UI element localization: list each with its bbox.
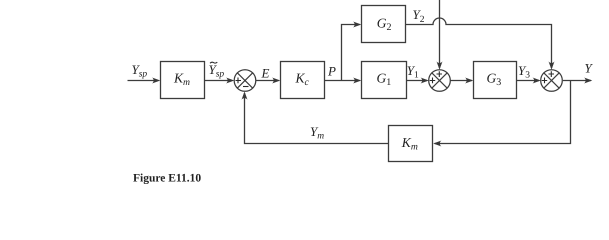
wire: setpoint input line [128,78,161,84]
svg-text:E: E [261,65,270,80]
summing junction 1 [234,70,256,92]
svg-text:Km: Km [173,70,190,88]
svg-text:G3: G3 [487,70,502,88]
svg-text:Figure E11.10: Figure E11.10 [133,172,201,184]
summing junction 2 [429,70,451,92]
svg-text:Y: Y [585,61,594,76]
block G1 [362,62,407,99]
wire: summer 3 to output Y [563,78,592,84]
wire: disturbance line from top into summer 2 [437,0,443,70]
wire: branch from node P up to G2 [342,22,362,81]
svg-text:G1: G1 [377,70,392,88]
wire: summer 1 to Kc [256,78,280,84]
wire: feedback tap from output down and left to Km [433,81,570,147]
block G3 [474,62,517,99]
block Km (feedback measurement) [389,126,433,162]
svg-text:Y3: Y3 [518,63,530,81]
wire: Kc to G1 through node P [325,78,362,84]
svg-text:Ysp: Ysp [132,62,148,80]
summing junction 3 [541,70,563,92]
wire: G1 to summer 2 [407,78,429,84]
block Km (setpoint measurement) [161,62,205,99]
svg-text:Km: Km [401,135,418,153]
svg-text:Ym: Ym [310,124,324,142]
block Kc (controller) [281,62,325,99]
svg-text:G2: G2 [377,15,392,33]
node Ysp-tilde label [209,62,225,80]
wire: G3 to summer 3 [517,78,541,84]
wire: summer 2 to G3 [450,78,473,84]
svg-text:Ysp: Ysp [209,62,225,80]
svg-text:Y2: Y2 [413,7,425,25]
svg-text:Kc: Kc [295,70,310,88]
svg-text:Y1: Y1 [407,63,419,81]
block G2 [362,6,406,43]
wire: Km feedback left and up into summer 1 [242,92,389,144]
wire: Km to summer 1 [205,78,235,84]
wire: G2 output, hop over disturbance line, down into summer 3 [406,18,555,70]
svg-text:P: P [327,64,336,79]
